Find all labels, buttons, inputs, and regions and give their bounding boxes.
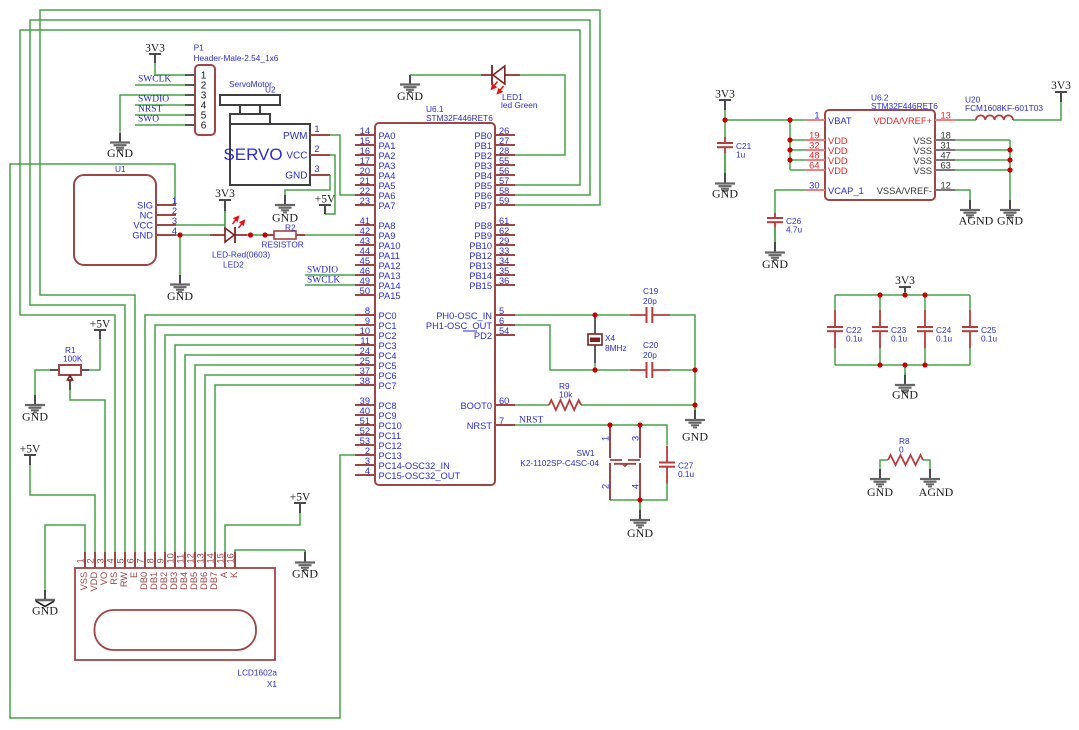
svg-text:13: 13: [941, 111, 951, 121]
svg-text:VBAT: VBAT: [828, 116, 852, 126]
capacitor C21 1u: [717, 137, 752, 160]
svg-text:4: 4: [106, 558, 116, 563]
svg-text:12: 12: [941, 181, 951, 191]
wire VSSA to AGND: [955, 190, 970, 200]
svg-text:1: 1: [601, 436, 611, 441]
svg-text:PA15: PA15: [379, 291, 401, 301]
capacitor C26 4.7u: [767, 213, 803, 235]
svg-text:3: 3: [314, 164, 319, 174]
svg-text:PC9: PC9: [379, 411, 397, 421]
pin 43 PA10 of U6.1: [355, 236, 401, 251]
svg-text:10: 10: [360, 326, 370, 336]
ground at LED1: [397, 75, 423, 103]
svg-text:4.7u: 4.7u: [786, 225, 803, 235]
svg-text:42: 42: [360, 226, 370, 236]
pin 26 PB0 of U6.1: [474, 126, 515, 141]
pin 30 VCAP_1 of U6.2: [805, 181, 864, 196]
svg-text:GND: GND: [892, 388, 918, 402]
svg-text:Header-Male-2.54_1x6: Header-Male-2.54_1x6: [194, 53, 279, 63]
wire PB2 to LED1 net: [515, 75, 565, 155]
junction X4 top / PH0: [592, 312, 597, 317]
ground at R8: [867, 469, 893, 499]
svg-text:0.1u: 0.1u: [891, 334, 908, 344]
svg-text:3: 3: [172, 216, 177, 226]
svg-text:53: 53: [360, 436, 370, 446]
wire VCAP1 to C26: [775, 190, 805, 213]
capacitor C25 0.1u: [962, 310, 998, 348]
svg-text:BOOT0: BOOT0: [460, 401, 492, 411]
wire VDD48: [790, 159, 805, 161]
pin 29 PB10 of U6.1: [469, 236, 515, 251]
pin 56 PB4 of U6.1: [474, 166, 515, 181]
svg-text:PA11: PA11: [379, 251, 400, 261]
wire PH1 to X4 bottom: [515, 325, 630, 370]
svg-text:VDD: VDD: [828, 166, 848, 176]
wire LCD K to GND: [235, 550, 305, 552]
wire C23 col: [879, 295, 881, 310]
svg-text:P1: P1: [194, 43, 205, 53]
svg-text:GND: GND: [397, 89, 423, 103]
svg-text:11: 11: [360, 336, 370, 346]
pin 10 PC2 of U6.1: [355, 326, 397, 341]
junction R9 / GND rail: [692, 402, 697, 407]
svg-text:13: 13: [196, 553, 206, 563]
svg-text:21: 21: [360, 176, 370, 186]
svg-text:36: 36: [499, 276, 509, 286]
svg-text:DB4: DB4: [179, 572, 189, 590]
svg-text:41: 41: [360, 216, 370, 226]
svg-text:3V3: 3V3: [895, 275, 915, 287]
svg-text:62: 62: [499, 226, 509, 236]
pin 54 PD2 of U6.1: [463, 326, 515, 341]
power flag 3V3 at LED2: [215, 188, 235, 211]
wire PH0 to C19: [515, 314, 630, 316]
svg-text:18: 18: [941, 131, 951, 141]
capacitor C19 20p: [630, 286, 670, 323]
svg-text:SIG: SIG: [137, 200, 153, 210]
svg-text:+5V: +5V: [290, 492, 311, 504]
wire PB6 to LCD RW net: [30, 20, 590, 552]
svg-text:PA1: PA1: [379, 141, 396, 151]
svg-text:U2: U2: [265, 85, 276, 95]
pin 7 NRST of U6.1: [467, 416, 515, 431]
svg-text:48: 48: [809, 151, 819, 161]
ground at LCD K: [292, 550, 318, 581]
pin 1 VSS of X1: [76, 552, 89, 590]
wire 3V3 to VBAT: [725, 110, 805, 120]
pin 39 PC8 of U6.1: [355, 396, 397, 411]
svg-text:PA8: PA8: [379, 221, 396, 231]
pin 14 PA0 of U6.1: [355, 126, 395, 141]
svg-text:14: 14: [206, 553, 216, 563]
svg-text:5: 5: [116, 558, 126, 563]
svg-text:16: 16: [360, 146, 370, 156]
svg-text:25: 25: [360, 356, 370, 366]
power flag 3V3 at U20: [1051, 80, 1071, 102]
pin 21 PA5 of U6.1: [355, 176, 395, 191]
connector P1 Header-Male-2.54_1x6: [185, 43, 279, 136]
wire NRST net: [515, 425, 667, 445]
pin 4 RS of X1: [106, 552, 119, 585]
wire VSS47: [955, 159, 1010, 161]
svg-text:PA13: PA13: [379, 271, 401, 281]
svg-text:3V3: 3V3: [145, 43, 165, 55]
pin 22 PA6 of U6.1: [355, 186, 395, 201]
pin 59 PB7 of U6.1: [474, 196, 515, 211]
svg-text:50: 50: [360, 286, 370, 296]
svg-text:4: 4: [631, 484, 641, 489]
svg-text:PC4: PC4: [379, 351, 397, 361]
svg-text:1: 1: [76, 558, 86, 563]
svg-text:2: 2: [365, 446, 370, 456]
svg-text:LED2: LED2: [223, 260, 244, 270]
wire C24 col: [924, 295, 926, 310]
svg-text:DB5: DB5: [189, 572, 199, 590]
svg-text:0.1u: 0.1u: [981, 334, 998, 344]
power flag 3V3 at C21: [715, 89, 735, 111]
pin 12 VSSA/VREF- of U6.2: [877, 181, 955, 196]
pin 53 PC12 of U6.1: [355, 436, 402, 451]
analog ground AGND at U6.2: [959, 200, 994, 228]
svg-text:17: 17: [360, 156, 370, 166]
svg-text:54: 54: [499, 326, 509, 336]
svg-text:38: 38: [360, 376, 370, 386]
svg-text:PA9: PA9: [379, 231, 396, 241]
svg-text:STM32F446RET6: STM32F446RET6: [871, 101, 938, 111]
svg-text:VCAP_1: VCAP_1: [828, 186, 864, 196]
ground at R1: [22, 395, 48, 424]
junction VSS rail 63: [1007, 167, 1012, 172]
svg-text:VCC: VCC: [286, 151, 307, 162]
svg-text:DB2: DB2: [159, 572, 169, 590]
svg-text:SWCLK: SWCLK: [307, 276, 340, 286]
pin 57 PB5 of U6.1: [474, 176, 515, 191]
svg-text:3: 3: [631, 436, 641, 441]
svg-text:RS: RS: [109, 572, 119, 585]
svg-text:DB6: DB6: [199, 572, 209, 590]
svg-text:0: 0: [899, 445, 904, 455]
wire cblock gnd stem: [904, 365, 906, 373]
svg-text:PB14: PB14: [469, 271, 492, 281]
power flag +5V at LCD VDD: [20, 444, 41, 466]
svg-text:0.1u: 0.1u: [678, 469, 695, 479]
svg-text:34: 34: [499, 256, 509, 266]
wire 3V3 rail top: [835, 294, 970, 296]
svg-text:PB4: PB4: [474, 171, 492, 181]
ground at U6.2 VSS: [997, 200, 1023, 228]
wire R1 left to GND: [35, 370, 50, 395]
junction gnd cap rail: [902, 362, 907, 367]
svg-text:PA14: PA14: [379, 281, 401, 291]
svg-text:STM32F446RET6: STM32F446RET6: [426, 113, 493, 123]
svg-text:PA4: PA4: [379, 171, 396, 181]
svg-text:R2: R2: [285, 223, 296, 233]
pin 38 PC7 of U6.1: [355, 376, 397, 391]
svg-text:PC3: PC3: [379, 341, 397, 351]
LCD module X1 LCD1602a: [75, 568, 277, 689]
pin 16 PA2 of U6.1: [355, 146, 395, 161]
junction NRST / SW1 pin3: [637, 422, 642, 427]
svg-text:10k: 10k: [559, 390, 573, 400]
wire R1 wiper to LCD VO: [70, 390, 105, 552]
wire PB5 to LCD RS net: [20, 30, 580, 552]
svg-text:PB2: PB2: [474, 151, 492, 161]
junction U1 GND / LED2 net: [177, 232, 182, 237]
pin 7 DB0 of X1: [136, 552, 149, 590]
pin 40 PC9 of U6.1: [355, 406, 397, 421]
svg-text:PA5: PA5: [379, 181, 396, 191]
wire PC6 to LCD DB6: [205, 375, 355, 552]
svg-text:GND: GND: [997, 214, 1023, 228]
pin 47 VSS of U6.2: [913, 151, 955, 166]
wire R2 to PA9: [300, 234, 355, 236]
svg-text:PB12: PB12: [469, 251, 492, 261]
pin 15 PA1 of U6.1: [355, 136, 395, 151]
wire R9 to GND: [581, 404, 695, 406]
svg-text:K2-1102SP-C4SC-04: K2-1102SP-C4SC-04: [520, 458, 599, 468]
pin 8 DB1 of X1: [146, 552, 159, 590]
svg-text:32: 32: [809, 141, 819, 151]
svg-text:6: 6: [499, 316, 504, 326]
junction SW1 bottom / GND: [637, 497, 642, 502]
svg-text:4: 4: [365, 466, 370, 476]
pin 2 PC13 of U6.1: [355, 446, 402, 461]
pin 27 PB1 of U6.1: [474, 136, 515, 151]
pin 48 VDD of U6.2: [805, 151, 848, 166]
svg-text:PB15: PB15: [469, 281, 492, 291]
pin 3 VO of X1: [96, 552, 109, 585]
wire C22 col: [834, 295, 836, 310]
wire LED2 cathode link: [247, 234, 268, 236]
capacitor C20 20p: [630, 340, 670, 378]
wire PC13 to U1 SIG net: [10, 164, 355, 718]
svg-text:PA12: PA12: [379, 261, 401, 271]
svg-text:12: 12: [186, 553, 196, 563]
wire gnd rail bottom: [835, 364, 970, 366]
wire PB7 to LCD E net: [40, 10, 600, 552]
capacitor C27 0.1u: [659, 446, 695, 484]
LED2 LED-Red(0603): [210, 217, 270, 270]
svg-text:PC12: PC12: [379, 441, 402, 451]
svg-text:3V3: 3V3: [715, 89, 735, 101]
svg-text:NRST: NRST: [519, 416, 543, 426]
wire PC0 to LCD DB0: [145, 315, 355, 552]
svg-text:PC7: PC7: [379, 381, 397, 391]
pin 4 PC15-OSC32_OUT of U6.1: [355, 466, 460, 481]
svg-text:61: 61: [499, 216, 509, 226]
svg-text:0.1u: 0.1u: [936, 334, 953, 344]
pin 31 VSS of U6.2: [913, 141, 955, 156]
wire C19 to GND net: [670, 315, 695, 405]
svg-text:AGND: AGND: [919, 485, 954, 499]
wire PC5 to LCD DB5: [195, 365, 355, 552]
pin 45 PA12 of U6.1: [355, 256, 401, 271]
junction 3V3 cap rail: [902, 292, 907, 297]
svg-text:15: 15: [360, 136, 370, 146]
microcontroller U6.2 STM32F446RET6 (power pins): [825, 93, 938, 201]
svg-text:NRST: NRST: [467, 421, 493, 431]
wire PC1 to LCD DB1: [155, 325, 355, 552]
svg-text:PA3: PA3: [379, 161, 396, 171]
pin 44 PA11 of U6.1: [355, 246, 400, 261]
wire C22 colb: [834, 348, 836, 365]
svg-text:K: K: [229, 571, 239, 578]
junction C23 bottom: [877, 362, 882, 367]
svg-text:44: 44: [360, 246, 370, 256]
svg-text:56: 56: [499, 166, 509, 176]
svg-text:0.1u: 0.1u: [846, 334, 863, 344]
pin 24 PC4 of U6.1: [355, 346, 397, 361]
svg-text:PB7: PB7: [474, 201, 492, 211]
resistor R9 10k: [549, 381, 581, 410]
svg-text:+5V: +5V: [20, 444, 41, 456]
wire PC2 to LCD DB2: [165, 335, 355, 552]
svg-text:8: 8: [146, 558, 156, 563]
svg-text:29: 29: [499, 236, 509, 246]
pin 35 PB14 of U6.1: [469, 266, 515, 281]
svg-text:PA6: PA6: [379, 191, 396, 201]
wire C25 colb: [969, 348, 971, 365]
svg-text:PC10: PC10: [379, 421, 402, 431]
svg-text:59: 59: [499, 196, 509, 206]
pin 25 PC5 of U6.1: [355, 356, 397, 371]
wire VSS18: [955, 139, 1010, 141]
analog ground AGND at R8: [919, 469, 954, 499]
pin 51 PC10 of U6.1: [355, 416, 402, 431]
pin 18 VSS of U6.2: [913, 131, 955, 146]
power flag +5V at LCD A: [290, 492, 311, 514]
svg-text:PB0: PB0: [474, 131, 492, 141]
svg-text:100K: 100K: [63, 354, 83, 364]
svg-text:8MHz: 8MHz: [605, 343, 627, 353]
svg-text:GND: GND: [107, 146, 133, 160]
svg-text:VSS: VSS: [913, 136, 932, 146]
pin 20 PA4 of U6.1: [355, 166, 395, 181]
wire NRST to P1 pin5: [135, 114, 185, 116]
pin 11 PC3 of U6.1: [355, 336, 397, 351]
wire BOOT0 to R9: [515, 404, 549, 406]
svg-text:SWO: SWO: [138, 115, 159, 125]
svg-text:+5V: +5V: [315, 194, 336, 206]
wire C20 right: [670, 369, 695, 371]
wire R8 left: [880, 460, 888, 479]
svg-text:E: E: [129, 572, 139, 578]
wire VDD32: [790, 149, 805, 151]
wire SWCLK stub PA14: [305, 284, 355, 286]
svg-text:PC13: PC13: [379, 451, 402, 461]
wire LED2 junction to GND drop: [179, 235, 181, 275]
svg-text:2: 2: [314, 144, 319, 154]
svg-text:PC6: PC6: [379, 371, 397, 381]
wire R1 right to +5V: [89, 339, 100, 370]
wire servo VCC to +5V: [325, 155, 335, 214]
svg-text:7: 7: [499, 416, 504, 426]
svg-text:PD2: PD2: [474, 331, 492, 341]
svg-text:10: 10: [166, 553, 176, 563]
svg-text:PB1: PB1: [474, 141, 492, 151]
pin 6 PH1-OSC_OUT of U6.1: [426, 316, 515, 331]
pin 11 DB4 of X1: [176, 552, 189, 590]
svg-text:VSS: VSS: [913, 166, 932, 176]
svg-text:9: 9: [365, 316, 370, 326]
pin 52 PC11 of U6.1: [355, 426, 401, 441]
ground at servo: [272, 195, 298, 225]
wire VDD19: [790, 139, 805, 141]
svg-text:37: 37: [360, 366, 370, 376]
ground at LED2: [167, 275, 193, 303]
capacitor C23 0.1u: [872, 310, 908, 348]
svg-text:3V3: 3V3: [1051, 80, 1071, 92]
pin 10 DB3 of X1: [166, 552, 179, 590]
svg-text:PC5: PC5: [379, 361, 397, 371]
wire LCD VSS to GND: [45, 525, 85, 590]
svg-text:2: 2: [601, 484, 611, 489]
ground at C26: [762, 227, 788, 271]
svg-text:NC: NC: [140, 210, 154, 220]
svg-text:DB7: DB7: [209, 572, 219, 590]
svg-text:C20: C20: [643, 340, 659, 350]
wire PC4 to LCD DB4: [185, 355, 355, 552]
wire VSS63: [955, 169, 1010, 171]
junction C24 bottom: [922, 362, 927, 367]
crystal X4 8MHz: [588, 315, 627, 363]
svg-text:DB3: DB3: [169, 572, 179, 590]
pin 19 VDD of U6.2: [805, 131, 848, 146]
svg-text:4: 4: [172, 226, 177, 236]
svg-text:35: 35: [499, 266, 509, 276]
svg-text:1: 1: [172, 196, 177, 206]
ground at P1 pin3: [107, 133, 133, 161]
svg-text:PC0: PC0: [379, 311, 397, 321]
svg-text:55: 55: [499, 156, 509, 166]
junction C23 top: [877, 292, 882, 297]
svg-text:VDD: VDD: [828, 146, 848, 156]
pin 46 PA13 of U6.1: [355, 266, 401, 281]
svg-text:33: 33: [499, 246, 509, 256]
svg-text:PA10: PA10: [379, 241, 401, 251]
svg-text:23: 23: [360, 196, 370, 206]
wire PC3 to LCD DB3: [175, 345, 355, 552]
svg-text:PH0-OSC_IN: PH0-OSC_IN: [436, 311, 492, 321]
svg-text:1: 1: [814, 111, 819, 121]
svg-text:30: 30: [809, 181, 819, 191]
svg-text:PC2: PC2: [379, 331, 397, 341]
svg-text:PA2: PA2: [379, 151, 396, 161]
pin 60 BOOT0 of U6.1: [460, 396, 515, 411]
svg-text:PWM: PWM: [283, 131, 307, 142]
svg-text:LCD1602a: LCD1602a: [237, 668, 277, 678]
pin 28 PB2 of U6.1: [474, 146, 515, 161]
junction NRST / SW1 pin1: [607, 422, 612, 427]
junction VDD rail 48: [787, 157, 792, 162]
wire SWO to P1 pin6: [135, 124, 185, 126]
svg-text:PB5: PB5: [474, 181, 492, 191]
svg-text:VDD: VDD: [828, 156, 848, 166]
wire U1 VCC to 3V3: [175, 211, 225, 225]
wire U20 to 3V3: [1013, 102, 1061, 120]
junction X4 bottom / PH1: [592, 367, 597, 372]
pin 58 PB6 of U6.1: [474, 186, 515, 201]
wire C27 bottom to SW1: [610, 484, 667, 501]
pin 64 VDD of U6.2: [805, 161, 848, 176]
svg-text:PC14-OSC32_IN: PC14-OSC32_IN: [379, 461, 450, 471]
svg-text:15: 15: [216, 553, 226, 563]
svg-text:20: 20: [360, 166, 370, 176]
wire VDD64: [790, 169, 805, 171]
pin 32 VDD of U6.2: [805, 141, 848, 156]
svg-text:GND: GND: [132, 230, 153, 240]
ground at cap block: [892, 373, 918, 402]
